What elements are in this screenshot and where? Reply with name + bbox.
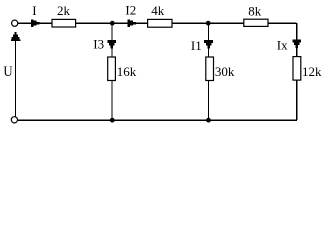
node junction bottom-1	[110, 118, 115, 123]
node junction bottom-2	[206, 118, 211, 123]
arrow current I1	[204, 40, 213, 49]
arrow current Ix	[292, 40, 301, 49]
node junction top-2	[206, 21, 211, 26]
svg-text:12k: 12k	[302, 64, 322, 79]
wire left source branch vertical	[15, 38, 17, 116]
resistor 12k	[293, 57, 301, 81]
svg-text:8k: 8k	[248, 4, 261, 19]
terminal top-left	[12, 20, 18, 26]
wire right vertical	[296, 23, 298, 120]
svg-text:Ix: Ix	[277, 38, 288, 53]
wire middle branch 2 vertical	[208, 23, 210, 120]
resistor 4k	[148, 19, 172, 27]
resistor 16k	[108, 57, 116, 81]
svg-text:I3: I3	[93, 36, 104, 51]
wire middle branch 1 vertical	[111, 23, 113, 120]
wire top horizontal	[18, 22, 297, 24]
svg-text:I: I	[32, 3, 36, 18]
svg-text:30k: 30k	[215, 64, 235, 79]
resistor 30k	[206, 57, 214, 81]
svg-text:I2: I2	[125, 2, 136, 17]
svg-text:4k: 4k	[151, 3, 165, 18]
terminal bottom-left	[11, 117, 17, 123]
svg-text:I1: I1	[191, 38, 202, 53]
resistor 8k	[244, 19, 268, 26]
svg-text:U: U	[3, 64, 12, 80]
resistor 2k	[52, 19, 76, 27]
svg-text:16k: 16k	[117, 64, 137, 79]
node junction top-1	[110, 21, 115, 26]
arrow source U up	[11, 32, 20, 41]
wire bottom horizontal	[18, 119, 297, 121]
svg-text:2k: 2k	[57, 3, 71, 18]
arrow current I3	[107, 40, 116, 49]
arrow current I2	[127, 19, 135, 27]
arrow current I	[31, 19, 39, 27]
